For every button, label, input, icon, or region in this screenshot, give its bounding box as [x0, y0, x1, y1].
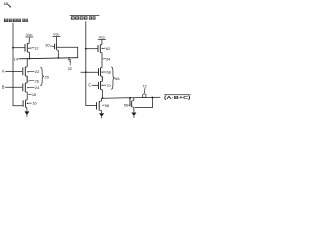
svg-text:20: 20 [45, 75, 50, 80]
wire: node 14 rail [19, 58, 79, 59]
wire: feedback loop from output node to gate of 56 [136, 97, 153, 107]
output label (A·B+C) with overline [164, 93, 190, 96]
node: junction of 30 drain on rail [58, 57, 60, 59]
power VDD for transistor 62 [99, 34, 105, 39]
wire: drain loop of 30 over transistor 32 [57, 47, 78, 58]
transistor Q16 (NMOS pull-down, gate from ctrl1) [22, 100, 24, 106]
transistor Q58 (NMOS, gate from ctrl2) [96, 102, 98, 109]
wire: B to gate of 24 [5, 86, 22, 88]
label: complementary control signal input with overline (Hangul blobs) [70, 14, 100, 17]
transistor Q12 (PMOS pull-up, gate from ctrl1) [24, 44, 26, 52]
svg-text:22: 22 [35, 69, 40, 74]
node 72 circle on output line [143, 94, 147, 98]
svg-text:58: 58 [105, 103, 109, 108]
wire: control line 2 vertical with turn to gate of 58 [86, 21, 97, 105]
node: junction drain stack and 58 [102, 97, 104, 99]
svg-text:66: 66 [115, 76, 120, 81]
wire: A to gate of 22 [5, 71, 22, 73]
wire: gate line of transistor 68 [81, 71, 99, 73]
transistor Q32 (pass transistor on rail, gate below) [68, 59, 71, 61]
node 26 label (between 22 and 24) [28, 80, 34, 82]
wire: C to gate of 70 [92, 84, 98, 86]
transistor Q22 (NMOS input A) [22, 67, 24, 75]
node: junction of 12 drain on rail [29, 58, 31, 60]
node: junction to feedback loop [151, 96, 153, 98]
ground below 56 [131, 113, 136, 117]
svg-text:24: 24 [35, 85, 40, 90]
svg-text:10: 10 [4, 2, 8, 6]
svg-text:32: 32 [68, 66, 73, 71]
power VDD for transistor 12 [26, 32, 32, 37]
wire: ctrl1 to gate of transistor 12 [13, 47, 25, 49]
power VDD for transistor 30 [53, 31, 59, 36]
svg-text:68: 68 [107, 70, 111, 75]
svg-text:70: 70 [106, 83, 111, 88]
wire: control line 1 vertical with turn to gate of 16 [13, 23, 23, 106]
ground below 16 [24, 111, 29, 115]
svg-text:64: 64 [106, 56, 111, 61]
input C [88, 82, 91, 87]
transistor Q56 (diode-connected NMOS) [129, 98, 131, 106]
leader dot and label 12 [28, 48, 29, 49]
svg-text:A: A [2, 69, 5, 74]
wire: ctrl2 to gate of transistor 62 [86, 48, 98, 50]
svg-text:26: 26 [35, 79, 40, 84]
transistor Q24 (NMOS input B) [22, 83, 24, 91]
svg-text:14: 14 [14, 56, 19, 61]
svg-text:(A·B+C): (A·B+C) [164, 95, 191, 101]
node 64 label [103, 58, 106, 60]
svg-text:18: 18 [32, 92, 36, 97]
transistor Q68 (gate from ctrl2 line) [98, 68, 100, 75]
svg-text:B: B [2, 85, 5, 90]
svg-text:56: 56 [124, 103, 128, 108]
figure reference 10 with arrow [4, 2, 8, 6]
node 14 label [14, 56, 19, 61]
label: first control signal input (Hangul blobs) [4, 19, 28, 22]
node 18 label [28, 93, 31, 95]
transistor Q62 (PMOS, gate from ctrl2) [97, 45, 99, 52]
input B [2, 85, 5, 90]
label 72 with arrow [142, 83, 147, 88]
svg-text:12: 12 [34, 46, 39, 51]
brace group 66 around 68 and 70 [111, 67, 114, 90]
node: contact dot of transistor 32 [68, 57, 70, 59]
node: junction at gate of 56 [129, 97, 131, 99]
input A [2, 69, 5, 74]
node: junction ctrl2 to gate of 62 [85, 48, 87, 50]
wire: output node line [103, 96, 161, 99]
transistor Q70 (NMOS input C) [98, 82, 100, 89]
brace group 20 around 22 and 24 [40, 67, 43, 85]
svg-text:62: 62 [106, 46, 111, 51]
node: junction ctrl2 to gate of 68 [85, 71, 87, 73]
svg-text:30: 30 [45, 42, 50, 47]
node: junction ctrl1 to gate of 12 [12, 47, 14, 49]
transistor Q30 (PMOS, label 30) [45, 42, 50, 47]
svg-text:16: 16 [32, 101, 36, 106]
svg-text:C: C [88, 82, 91, 87]
ground below 58 [99, 113, 104, 117]
svg-text:72: 72 [142, 83, 147, 88]
